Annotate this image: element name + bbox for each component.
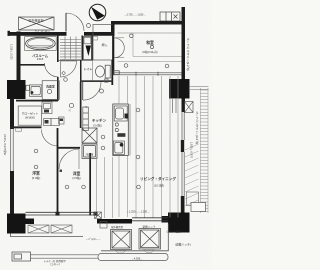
paper grain overlay <box>0 0 1 1</box>
evacuation hatch box 2 <box>139 229 161 250</box>
toilet bottom wall <box>80 80 112 82</box>
bedroom2 switch circles <box>65 185 69 189</box>
wall: right outer upper <box>182 7 186 80</box>
shoe cabinet strip <box>83 37 91 60</box>
wall: right outer lower with windows <box>181 99 185 214</box>
washitsu circles <box>130 34 134 38</box>
wall: bedroom1 top <box>10 126 42 128</box>
trapezoid mark below hatch box2 <box>144 250 155 253</box>
toilet fixture <box>96 65 111 78</box>
wall: washroom right <box>57 36 59 102</box>
wall: top outer left section <box>8 32 115 36</box>
side balcony diagonal hatch <box>185 144 199 206</box>
washroom door arc into hall <box>61 61 77 77</box>
bottom strip: left box <box>12 252 31 261</box>
counter circles <box>115 123 118 126</box>
kitchen tall cupboard <box>83 107 89 131</box>
wall: bedroom divider <box>57 128 59 216</box>
bathtub <box>25 37 57 51</box>
bedroom2 door leaf <box>78 149 80 169</box>
entrance door leaf <box>65 13 67 32</box>
small marks right of door <box>93 37 98 41</box>
wall stub right of bottom-left column <box>26 219 35 225</box>
balcony left: AC boxes <box>28 225 72 233</box>
wall: bedroom2 right <box>89 153 91 216</box>
kitchen left wall <box>80 82 82 128</box>
diamond mark hall <box>62 71 66 75</box>
toilet door arc <box>82 82 84 100</box>
faucet dark mark <box>117 133 125 137</box>
genkan step line <box>59 59 94 61</box>
kitchen switch circles <box>101 135 105 139</box>
column: top-right <box>169 79 190 99</box>
side balcony AC unit <box>187 192 199 206</box>
column: bottom-right <box>168 213 190 233</box>
small box on balcony wall <box>100 222 107 229</box>
partition line in toilet <box>91 60 93 80</box>
entrance door swing arc <box>66 13 84 31</box>
wall: top outer right section <box>111 21 185 25</box>
PS box on hall left wall <box>59 117 65 124</box>
LD switch circle 3 <box>137 185 141 189</box>
small PS box with x at bed2 bottom right <box>95 212 102 219</box>
small fixture box B <box>44 119 60 126</box>
column: bottom-left <box>7 214 26 234</box>
wall: left outer upper (bathroom) <box>17 32 21 81</box>
bedroom1 top-left tick <box>16 128 22 131</box>
refrigerator <box>82 144 97 159</box>
bedroom2 door arc <box>59 149 79 169</box>
sliding doors washitsu/LD <box>113 71 182 76</box>
side balcony X-box (PS) <box>185 102 194 113</box>
balcony left bottom rail <box>10 234 83 237</box>
stove <box>113 141 124 155</box>
wall: bedroom2 top <box>57 147 80 149</box>
wall: bathroom bottom <box>21 64 45 66</box>
tatami joint lines <box>118 33 182 62</box>
white box right of bottom column <box>191 203 206 212</box>
balcony right bottom rail <box>101 250 169 252</box>
wall: bedroom window wall bottom <box>26 212 98 216</box>
column: top-left <box>7 80 26 99</box>
oshiire double doors <box>115 38 125 58</box>
tiny box on toilet wall <box>105 79 109 82</box>
switch circle hall <box>64 78 68 82</box>
genkan tile grid <box>60 37 81 60</box>
wall stub left of bottom-right column <box>162 216 169 223</box>
oshiire closet <box>93 25 112 61</box>
wall: genkan right <box>82 36 84 61</box>
trapezoid mark below hatch box1 <box>115 250 126 253</box>
bathroom door arc <box>45 63 59 77</box>
LD flooring lines <box>97 76 179 218</box>
side balcony top rail <box>189 87 209 90</box>
bedroom1 door arc <box>42 130 59 147</box>
wall: toilet left <box>92 36 93 61</box>
wall: step connector between top walls <box>111 21 115 36</box>
switch circle hall lower <box>69 103 73 107</box>
sink <box>114 106 127 121</box>
wall: oshiire/toilet right <box>111 25 113 86</box>
washing machine <box>26 85 42 96</box>
service balcony box with X (outdoor unit space) <box>19 17 55 30</box>
wall: washroom bottom <box>16 100 58 102</box>
meter box top right <box>160 12 180 21</box>
refrigerator box with X <box>82 128 97 143</box>
washitsu left wall <box>112 25 114 75</box>
intercom circle on wall <box>87 24 91 28</box>
kitchen counter outline <box>113 104 129 156</box>
vanity / washroom label <box>42 81 59 100</box>
balcony right edge <box>167 224 169 252</box>
wall: left outer lower with window <box>10 99 14 214</box>
duct lines below right column <box>173 99 177 113</box>
evacuation hatch box 1 <box>111 230 132 250</box>
small fixture box A <box>42 102 52 114</box>
bedroom1 switch circles <box>34 149 38 153</box>
bottom strip: rounded bar right <box>98 254 168 261</box>
bottom strip: bar left <box>31 255 99 258</box>
compass <box>89 4 106 21</box>
closet of bedroom1 <box>18 106 41 125</box>
LD window bottom <box>132 218 168 221</box>
washitsu upper line <box>118 32 182 34</box>
side balcony railing <box>201 88 209 213</box>
switch circle near toilet door <box>100 89 104 93</box>
wall: toilet left lower <box>80 60 82 81</box>
LD switch circles <box>136 108 140 112</box>
wall: black bar below LD left <box>97 219 132 224</box>
